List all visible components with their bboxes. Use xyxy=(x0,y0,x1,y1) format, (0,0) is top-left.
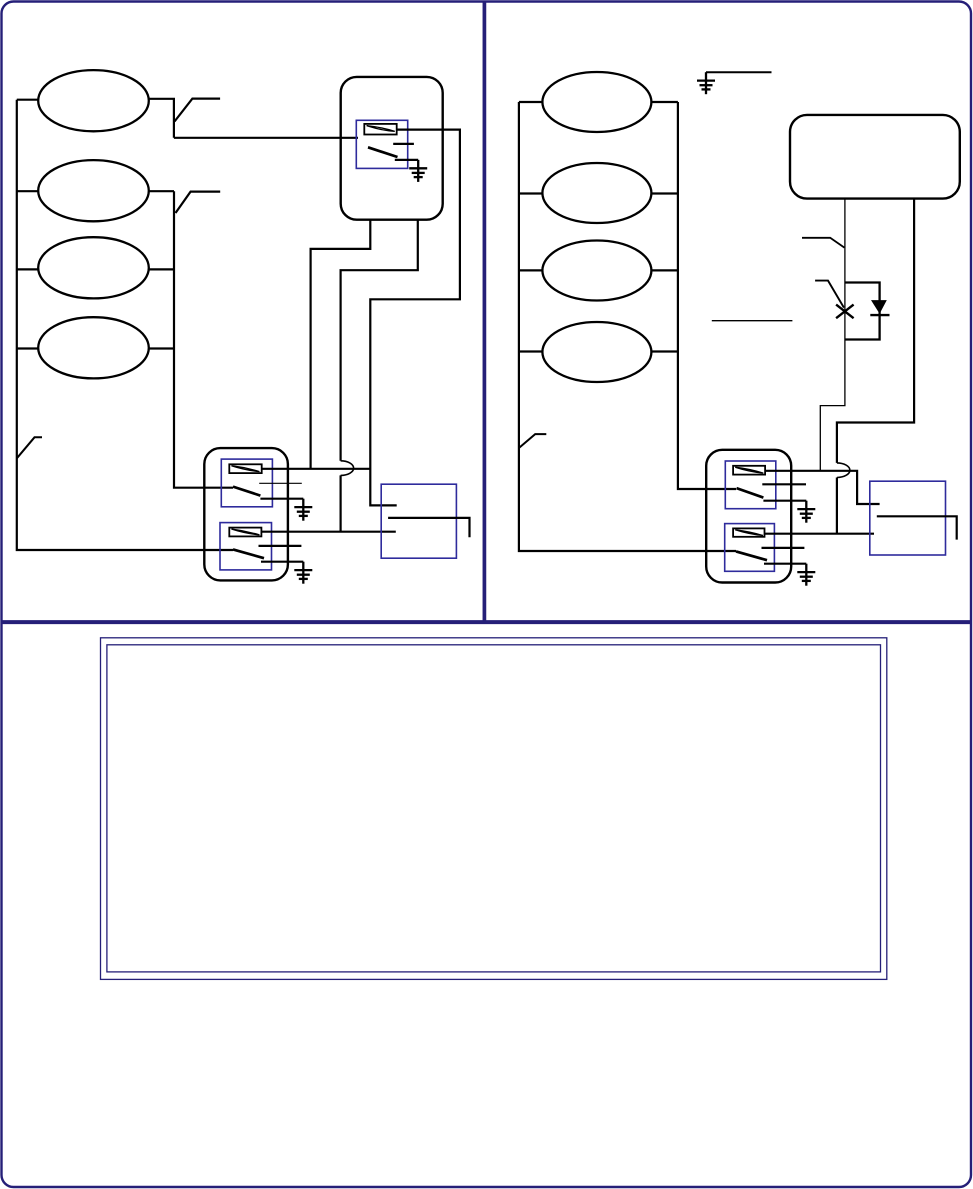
relay U3A blade terminal tick xyxy=(763,500,806,502)
wire bus to L3 xyxy=(17,268,38,270)
wire R1 right xyxy=(651,101,678,103)
relay U1 coil xyxy=(364,124,396,135)
left bus wire xyxy=(17,100,233,550)
relay U1 blade terminal tick xyxy=(395,159,418,161)
right panel right bus xyxy=(678,102,736,489)
wire U2B coil out xyxy=(261,531,395,533)
ground at relay U2A xyxy=(294,499,312,521)
relay unit box U1 xyxy=(341,77,443,220)
relay U3B blade terminal tick xyxy=(764,563,806,565)
diode D1 xyxy=(871,300,887,314)
ground at relay U1 xyxy=(409,160,427,182)
wire R3 right xyxy=(651,269,678,271)
relay assembly box U3 xyxy=(706,450,791,583)
relay U3B contact blade xyxy=(736,551,767,560)
wire L2 to switch S2 xyxy=(149,190,174,192)
lamp R4 xyxy=(542,322,651,382)
wire U1 pin left down xyxy=(311,220,371,469)
relay U2B contact blade xyxy=(233,549,264,558)
relay U2A outline box xyxy=(221,459,272,507)
switch S1 xyxy=(175,99,221,122)
wire control unit left pin down xyxy=(820,199,845,471)
relay U1 outline box xyxy=(356,120,407,168)
relay U2B outline box xyxy=(220,523,272,570)
switch S2 xyxy=(176,192,221,213)
relay U2B coil xyxy=(229,528,261,537)
horizontal section divider xyxy=(1,620,972,624)
relay U3A coil winding xyxy=(735,467,763,473)
wire L1 to switch S1 xyxy=(149,99,174,138)
wire U3B coil out to connector xyxy=(765,533,875,535)
label line xyxy=(712,320,793,322)
lamp R3 xyxy=(542,241,651,301)
relay U2A coil winding xyxy=(231,466,259,472)
relay U2B blade terminal tick xyxy=(261,561,303,563)
SCR cross symbol xyxy=(836,305,854,319)
ground at relay U3B xyxy=(797,564,815,586)
connector C2 inner lead xyxy=(877,516,957,539)
relay U2A blade terminal tick xyxy=(260,498,303,500)
wire hop over coil wire (right) xyxy=(837,463,850,478)
diode branch loop xyxy=(845,283,880,340)
wire S1 to relay coil xyxy=(174,137,358,139)
ground at power feed xyxy=(697,72,715,94)
notes box inner xyxy=(107,645,881,972)
wire control unit right pin down with hop xyxy=(837,199,914,534)
switch on control line xyxy=(802,238,844,248)
diode D1 cathode bar xyxy=(870,314,889,316)
relay U1 contact fixed tick xyxy=(393,143,414,145)
relay U3B coil xyxy=(733,528,764,536)
lamp L2 xyxy=(38,160,149,221)
vertical panel divider xyxy=(483,2,487,622)
wire bus to L1 xyxy=(17,99,38,101)
relay U2A contact blade xyxy=(233,487,260,496)
lamp L4 xyxy=(38,317,149,378)
relay U3A contact fixed tick xyxy=(762,483,806,485)
ground at relay U2B xyxy=(294,562,312,584)
connector C2 box xyxy=(870,481,946,555)
relay U3B outline box xyxy=(725,524,775,572)
wire R2 right xyxy=(651,192,678,194)
control unit box xyxy=(790,115,960,199)
relay U3A outline box xyxy=(725,461,776,509)
wire bus to R1 left xyxy=(519,101,543,103)
wire U1 coil out right and down to connector xyxy=(370,130,460,506)
relay U2B contact fixed tick xyxy=(259,545,302,547)
wire bus to L4 xyxy=(17,347,38,349)
wire R4 right xyxy=(651,350,678,352)
relay U2A coil xyxy=(229,464,261,473)
wire L4 to vertical xyxy=(149,347,174,349)
wire hop over coil wire (left) xyxy=(341,461,354,476)
wire L3 to vertical xyxy=(149,268,174,270)
wire bus to R2 left xyxy=(519,192,543,194)
notes box outer xyxy=(101,638,887,980)
wire U2A coil out xyxy=(262,468,371,470)
lamp L1 xyxy=(38,70,149,131)
wire bus to R4 left xyxy=(519,350,543,352)
relay assembly box U2 xyxy=(204,448,288,580)
wire U3A coil out to connector xyxy=(765,471,880,504)
wire bus to L2 xyxy=(17,190,38,192)
wire bus to R3 left xyxy=(519,269,543,271)
wire U1 pin right down with hop xyxy=(341,220,418,532)
lamp R1 xyxy=(542,72,651,132)
right panel left bus xyxy=(519,102,736,551)
switch on left bus xyxy=(17,437,42,458)
lamp R2 xyxy=(542,163,651,223)
connector C1 inner lead xyxy=(388,518,469,537)
relay U3A contact blade xyxy=(737,488,764,498)
relay U3B coil winding xyxy=(735,530,763,536)
wire S2 down to relay A blade xyxy=(174,191,233,488)
power feed wire top xyxy=(706,71,772,73)
relay U2A contact fixed tick xyxy=(259,482,302,484)
connector C1 box xyxy=(381,484,456,558)
relay U3A coil xyxy=(733,466,765,475)
lamp L3 xyxy=(38,237,149,298)
SCR gate switch xyxy=(815,281,844,308)
relay U3B contact fixed tick xyxy=(762,547,805,549)
relay U1 coil winding xyxy=(367,126,395,132)
ground at relay U3A xyxy=(797,501,815,523)
relay U1 contact blade xyxy=(368,147,398,157)
relay U2B coil winding xyxy=(231,529,259,535)
switch on right panel left bus xyxy=(519,434,546,448)
